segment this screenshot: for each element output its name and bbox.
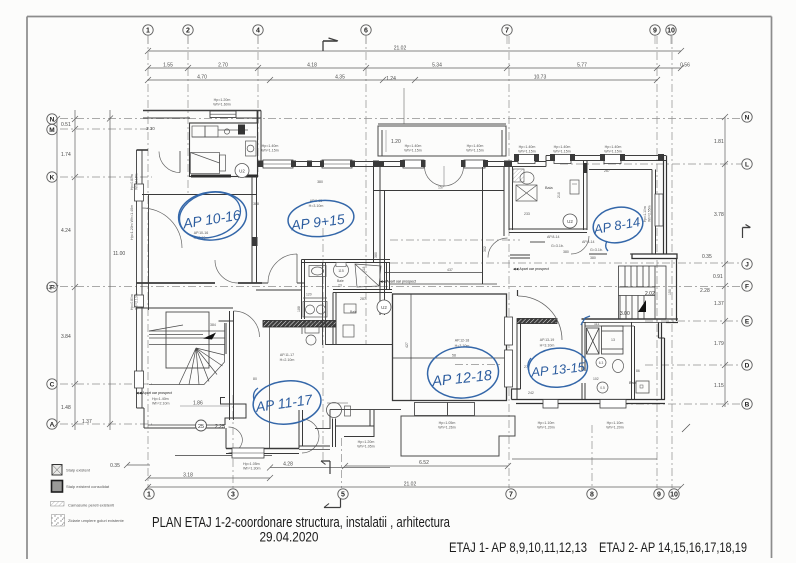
svg-text:AP 8-14: AP 8-14 [592,214,641,237]
AP10 south wall [137,282,216,284]
AP11 divider thin wall [269,327,271,449]
double door leaf arcs [229,427,243,440]
svg-text:4: 4 [256,28,260,35]
top dimension row 3 [145,77,660,83]
svg-text:111: 111 [594,322,599,326]
svg-text:AP 13-15: AP 13-15 [530,359,587,380]
wall piers dark top-right wall [379,154,664,167]
svg-text:6.3: 6.3 [599,361,604,365]
top-right windows [518,155,621,164]
grid row mid corridor [390,239,520,241]
svg-text:5: 5 [341,492,345,499]
svg-text:Hp=1.20m Wh=1.40m: Hp=1.20m Wh=1.40m [130,205,134,240]
tick mark right dim [682,424,690,432]
svg-text:A: A [50,422,55,429]
svg-text:3.18: 3.18 [183,473,193,479]
svg-text:Hp=1.10m: Hp=1.10m [643,206,647,222]
svg-text:0.91: 0.91 [713,274,723,280]
U2 circle middle [377,300,391,314]
svg-text:1.20: 1.20 [391,139,401,145]
shower square X [516,185,537,201]
svg-text:4.18: 4.18 [307,63,317,69]
svg-text:Baia: Baia [545,186,553,190]
svg-text:0.35: 0.35 [702,254,712,260]
AP13 bottom-left step [512,389,521,400]
left exterior wall [137,150,149,408]
svg-text:N: N [745,115,750,122]
AP13 left wall [517,322,521,400]
grid row F [60,286,742,288]
svg-text:Wh=1.15m: Wh=1.15m [404,149,421,153]
25 bubble [196,420,207,431]
svg-text:Zidarie umplere goluri existen: Zidarie umplere goluri existente [68,518,125,523]
svg-text:427: 427 [405,342,409,348]
AP13 shaft with X [587,328,600,354]
svg-text:115: 115 [338,269,344,273]
svg-text:1.15: 1.15 [714,383,724,389]
AP10 divider wall [252,176,257,283]
svg-text:G=3.1b.: G=3.1b. [551,244,564,248]
svg-text:4.35: 4.35 [335,75,345,81]
svg-text:8: 8 [590,492,594,499]
svg-text:◀◀ Apart oar prospect: ◀◀ Apart oar prospect [513,267,549,271]
entry walls [333,410,375,448]
AP12 balcony below [415,403,475,416]
svg-text:7: 7 [509,492,513,499]
grid row M [60,128,152,130]
svg-text:3.78: 3.78 [714,212,724,218]
svg-text:AP 10-16: AP 10-16 [181,207,242,232]
svg-text:10: 10 [667,28,675,35]
grid bubbles right [742,112,752,409]
svg-text:1.37: 1.37 [714,301,724,307]
svg-text:1: 1 [146,28,150,35]
right wall window box [655,194,663,226]
svg-text:◀◀ Apart oar prospect: ◀◀ Apart oar prospect [136,391,172,395]
right stairwell [619,266,667,319]
door arc left wall [142,208,182,248]
dark hatched wall strip [263,321,336,328]
blue annotation AP 13-15 [527,346,589,389]
grid row C [60,383,152,385]
svg-text:120: 120 [306,293,312,297]
svg-text:58: 58 [452,354,456,358]
svg-text:188: 188 [297,306,301,312]
svg-text:H=3.10m: H=3.10m [309,204,324,208]
blue annotation AP 12-18 [426,345,500,401]
shower hatched corner [513,169,524,182]
top wall band left unit [143,111,261,119]
grid line col 3 [232,395,234,488]
svg-text:Hp=1.40m: Hp=1.40m [152,397,169,401]
section flag bottom [321,461,330,474]
svg-text:Hp=1.05m: Hp=1.05m [439,421,456,425]
grid row lines dash-dot [60,119,742,425]
dark pier right bath [583,163,587,173]
svg-text:Hp=1.40m: Hp=1.40m [554,145,571,149]
grid line col 8 [591,425,593,488]
svg-text:Hp=1.40m: Hp=1.40m [405,144,422,148]
svg-text:N: N [50,117,55,124]
svg-text:4.28: 4.28 [283,462,293,468]
svg-text:302: 302 [483,246,487,252]
svg-text:F: F [745,284,749,291]
legend item 1 stalp existent [52,465,91,476]
svg-text:3.84: 3.84 [61,334,71,340]
grid line col 4 [257,36,259,178]
svg-text:Hp=0.80m: Hp=0.80m [130,174,134,190]
svg-text:Wh=1.60m: Wh=1.60m [213,103,230,107]
AP9 door arc [268,254,297,283]
left wall window boxes [135,184,144,388]
legend item 4 zidarie umplere [52,515,125,527]
grid line col 2 [187,36,189,196]
grid bubbles top [143,25,676,35]
svg-text:29.04.2020: 29.04.2020 [260,530,319,545]
svg-text:1.79: 1.79 [714,341,724,347]
svg-text:Baie: Baie [629,381,637,385]
svg-text:AP.8-14: AP.8-14 [582,240,595,244]
svg-text:H=2.10m: H=2.10m [280,358,295,362]
svg-text:1.55: 1.55 [163,63,173,69]
svg-text:380: 380 [374,252,378,258]
grid row E [645,320,742,322]
section flag top [323,38,338,51]
svg-text:AP 12-18: AP 12-18 [430,368,492,390]
big central room [374,167,505,315]
svg-text:2.02: 2.02 [645,291,655,297]
top wall under balcony with french doors [378,162,546,167]
window W1 above unit [210,111,236,118]
grid line col 7 [508,36,510,488]
svg-text:4.70: 4.70 [197,75,207,81]
grid line col 5 [341,438,343,488]
svg-text:1.48: 1.48 [61,405,71,411]
svg-text:233: 233 [524,212,530,216]
left stairwell [149,312,225,385]
svg-text:AP.8-14: AP.8-14 [547,235,560,239]
bottom balcony outline [315,410,515,457]
right outer wall lower [659,258,679,338]
wall protrusion right [632,254,677,259]
AP13 hatched wall [517,319,557,324]
AP13 bottom windows [543,400,626,409]
wall under unit [142,194,257,196]
grid line col 6 [365,36,367,345]
svg-text:10: 10 [670,492,678,499]
legend item 3 camasuire pereti existenti [51,502,115,508]
svg-text:150: 150 [668,289,672,295]
unit bottom wall dark [191,175,231,178]
svg-text:Wh=1.15m: Wh=1.15m [518,150,535,154]
window labels above plan [213,98,621,154]
svg-text:23: 23 [338,284,342,288]
svg-text:Wh=1.30m: Wh=1.30m [243,467,260,471]
right bath cluster walls [509,161,587,233]
1.86 dim [180,405,230,407]
svg-text:2.28: 2.28 [700,288,710,294]
apart prospect arrows left [380,280,416,284]
svg-text:AP.10-16: AP.10-16 [194,231,209,235]
svg-text:1.86: 1.86 [193,401,203,407]
wall piers dark top-left wall [257,161,379,168]
grid line col 9 [656,36,658,488]
blue annotation AP 11-17 [251,378,323,428]
entry door arcs from corridor [302,419,319,436]
svg-text:Wh=2.10m: Wh=2.10m [135,293,139,310]
unit kitchen counter [192,126,256,137]
svg-text:388: 388 [253,202,259,206]
svg-text:287: 287 [360,297,366,301]
svg-text:Wh=2.10m: Wh=2.10m [135,173,139,190]
svg-text:Stalp existent consolidat: Stalp existent consolidat [66,484,110,489]
svg-text:3: 3 [231,492,235,499]
svg-text:J: J [745,262,749,269]
AP13 right outer wall [659,338,665,400]
right dimension column [722,114,728,407]
svg-text:Hp=1.40m: Hp=1.40m [605,145,622,149]
wc cabinet [570,180,579,194]
svg-text:B: B [745,402,750,409]
svg-text:9: 9 [657,492,661,499]
svg-text:Hp=1.20m: Hp=1.20m [214,98,231,102]
svg-text:Hp=1.05m: Hp=1.05m [243,462,260,466]
svg-text:Hp=1.40m: Hp=1.40m [519,145,536,149]
svg-text:Wh=1.15m: Wh=1.15m [553,150,570,154]
blue annotation AP 9+15 [287,198,356,240]
svg-text:0.5: 0.5 [600,386,605,390]
section flag right [743,225,751,239]
stairs arrow dark [638,300,646,312]
svg-text:1.81: 1.81 [714,139,724,145]
corridor door arc [488,238,508,258]
right exterior wall [664,156,667,255]
bath1 washbasin [309,266,326,277]
svg-text:G=3.1b.: G=3.1b. [590,248,603,252]
svg-text:21.02: 21.02 [394,46,407,52]
grid bubbles left [47,114,57,429]
svg-text:ETAJ 1- AP 8,9,10,11,12,13: ETAJ 1- AP 8,9,10,11,12,13 [449,540,587,555]
svg-text:2.70: 2.70 [218,63,228,69]
bath1 wc [334,263,349,278]
svg-text:Wh=1.20m: Wh=1.20m [537,426,554,430]
grid row K [60,176,152,178]
grid row J right [390,262,742,264]
AP12 room [393,294,507,401]
AP10 door arc [215,260,238,283]
svg-text:M: M [49,127,54,134]
svg-text:2.25: 2.25 [215,424,225,430]
svg-text:380: 380 [317,180,323,184]
stair winders fan [179,348,225,385]
svg-text:267: 267 [604,169,610,173]
svg-text:3.30: 3.30 [146,126,155,131]
bottom dimension lines [124,459,684,490]
svg-text:11.00: 11.00 [113,251,125,257]
svg-text:Wh=1.15m: Wh=1.15m [466,149,483,153]
door arc unit entry [159,152,180,173]
svg-text:E: E [745,319,750,326]
svg-text:U2: U2 [567,219,573,224]
AP9 top wall windows [257,162,378,167]
small rects mid [305,304,356,345]
svg-text:4.24: 4.24 [61,228,71,234]
AP13 bottom wall [512,400,666,404]
AP13 bath divider wall [582,322,585,400]
svg-text:U2: U2 [239,169,245,174]
bath2 shower slanted [355,264,381,287]
corridor walls right [510,242,545,258]
svg-text:1.37: 1.37 [82,419,92,425]
svg-text:Wh=1.15m: Wh=1.15m [604,150,621,154]
svg-text:K: K [50,175,55,182]
bottom-left wall lower [175,410,330,456]
stair door arc to hall [234,311,260,337]
svg-text:Hp=1.10m: Hp=1.10m [607,421,624,425]
AP9 south walls [256,283,305,290]
section flag below bubbles [324,499,341,508]
svg-text:384: 384 [210,323,216,327]
svg-text:C: C [50,382,55,389]
twin sinks [303,298,327,317]
grid line col 1 [147,36,149,488]
entry porch jog [221,398,247,426]
svg-text:U2: U2 [381,305,387,310]
unit stove dark [238,125,245,135]
svg-text:6: 6 [364,28,368,35]
svg-text:L: L [745,162,749,169]
svg-text:12.57: 12.57 [46,285,59,291]
svg-text:157: 157 [438,186,444,190]
top dimension line 21.02 [145,48,684,54]
wall above stairs [137,307,234,309]
svg-text:Wh=2.55m: Wh=2.55m [648,205,652,222]
svg-text:5.34: 5.34 [432,63,442,69]
AP8 door arc [571,236,589,254]
grid row N [60,118,742,120]
svg-text:1.74: 1.74 [61,152,71,158]
svg-text:Hp=1.40m: Hp=1.40m [262,144,279,148]
AP12 right window boxes [505,317,513,387]
unit basin right [246,141,257,156]
grid column lines dash-dot [148,36,672,488]
svg-text:Hp=0.80m: Hp=0.80m [130,294,134,310]
svg-text:210: 210 [557,192,561,198]
svg-text:D: D [745,363,750,370]
svg-text:1: 1 [147,492,151,499]
svg-text:Stalp existent: Stalp existent [66,468,91,473]
svg-text:AP 9+15: AP 9+15 [289,211,345,234]
blue annotation AP 8-14 [590,203,645,246]
corridor lines center [384,273,497,285]
grid bubbles bottom [144,489,679,499]
svg-text:Baie: Baie [337,279,344,283]
AP13 bath fixtures [596,358,606,368]
U2 circle top-left [235,164,249,178]
AP8 room [589,170,656,255]
svg-text:Wh=1.15m: Wh=1.15m [261,149,278,153]
svg-text:AP.13-19: AP.13-19 [540,338,555,342]
svg-text:0.51: 0.51 [61,122,71,128]
grid row D [645,364,742,366]
svg-text:25: 25 [198,424,204,430]
svg-text:0.35: 0.35 [110,463,120,469]
svg-text:3.00: 3.00 [620,311,630,317]
svg-text:Wh=1.05m: Wh=1.05m [357,445,374,449]
svg-text:1.24: 1.24 [386,76,396,82]
svg-text:118: 118 [362,266,366,272]
AP13 right room wall [585,322,635,400]
blue tick mark [581,316,590,325]
AP13 entry arc [518,296,562,340]
top-right wall [506,156,666,167]
svg-text:102: 102 [593,377,599,381]
balcony dim tick [385,130,387,152]
svg-text:10.73: 10.73 [534,75,547,81]
middle bath cluster [302,260,393,346]
svg-text:13: 13 [611,338,615,342]
grid line col 10 [671,36,673,488]
wall below right stairs [582,318,667,320]
svg-text:AP.12-18: AP.12-18 [455,339,470,343]
svg-text:H=3.10m: H=3.10m [540,344,555,348]
top dimension row spans [145,65,684,71]
top balcony [378,88,506,156]
stair right wall [219,311,234,420]
unit table [191,153,226,174]
svg-text:ETAJ 2- AP 14,15,16,17,18,19: ETAJ 2- AP 14,15,16,17,18,19 [599,540,747,555]
left wall top stub [137,149,149,151]
bath basin [520,172,534,184]
svg-text:Hp=1.20m: Hp=1.20m [358,440,375,444]
svg-text:◀◀ Apart oar prospect: ◀◀ Apart oar prospect [380,280,416,284]
svg-text:Hp=1.40m: Hp=1.40m [467,144,484,148]
svg-text:242: 242 [528,391,534,395]
svg-text:21.02: 21.02 [404,482,417,488]
svg-text:2: 2 [186,28,190,35]
grid row B [620,403,742,405]
svg-text:AP.11-17: AP.11-17 [280,353,294,357]
AP13 boiler rect [636,381,649,393]
bottom-left wall works [137,408,226,428]
stair arrow dark [203,333,216,340]
svg-text:Camasuire pereti existenti: Camasuire pereti existenti [68,503,114,508]
bottom-left window box [232,448,264,458]
svg-text:Hp=1.10m: Hp=1.10m [538,421,555,425]
svg-text:Wh=2.10m: Wh=2.10m [152,402,169,406]
AP13 washer [602,326,624,354]
svg-text:Wh=1.20m: Wh=1.20m [606,426,623,430]
top-left unit outline [190,111,262,177]
svg-text:80: 80 [253,377,257,381]
grid row L [560,163,742,165]
grid line col 6b [322,228,324,460]
svg-text:Wh=1.26m: Wh=1.26m [438,426,455,430]
U2 circle right [563,214,577,228]
svg-text:86: 86 [636,369,640,373]
svg-text:7: 7 [505,28,509,35]
left dimension column [54,110,113,430]
svg-text:5.77: 5.77 [577,63,587,69]
svg-text:0.56: 0.56 [680,63,690,69]
french door arcs [425,167,445,187]
svg-text:9: 9 [653,28,657,35]
svg-text:6.52: 6.52 [419,460,429,466]
svg-text:380: 380 [590,256,596,260]
svg-text:437: 437 [447,268,453,272]
blue annotation AP 10-16 [176,189,249,244]
entry WC [327,403,342,418]
